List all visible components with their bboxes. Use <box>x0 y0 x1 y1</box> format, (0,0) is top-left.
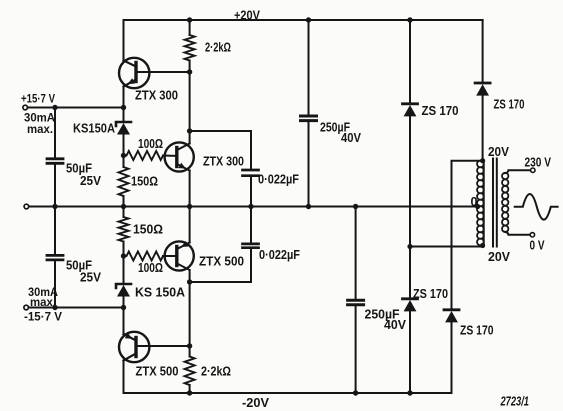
svg-text:+15·7 V: +15·7 V <box>21 92 56 106</box>
wire: left column collector of Q1 <box>123 20 125 61</box>
svg-text:20V: 20V <box>488 250 511 264</box>
zener diode ZS 170 (upper left) <box>403 104 418 117</box>
resistor 2.2k (top) <box>185 35 195 61</box>
wire: primary top tap to x451 column <box>452 161 483 308</box>
capacitor 50uF 25V (top) <box>47 159 63 164</box>
wire: 250uF top to rail <box>308 122 310 206</box>
wire: Q3 emitter to rail <box>189 207 191 243</box>
svg-text:40V: 40V <box>341 131 362 145</box>
wire: Q2 collector lead <box>189 131 191 144</box>
svg-text:20V: 20V <box>488 145 510 159</box>
wire: branch to 0.022uF (top) <box>190 131 251 169</box>
transformer T1 core <box>493 159 497 247</box>
svg-text:0·022µF: 0·022µF <box>259 248 300 262</box>
wire: 0.022uF top to rail <box>250 178 252 207</box>
svg-text:2·2kΩ: 2·2kΩ <box>201 365 231 379</box>
diode KS150A (top) <box>116 108 131 156</box>
resistor 2.2k (bottom) <box>185 357 195 386</box>
node: 230V terminal <box>531 168 535 172</box>
wire: 150ohm bottom leads <box>123 207 125 218</box>
node: 0V terminal <box>530 233 534 237</box>
zener diode ZS 170 (lower right) <box>444 310 459 323</box>
wire: 250uF bottom branch <box>355 207 357 299</box>
svg-text:230 V: 230 V <box>525 156 552 170</box>
transistor Q3 ZTX 500 (middle) <box>165 241 194 271</box>
capacitor 250uF 40V (top) <box>301 116 317 121</box>
sine wave output symbol <box>515 194 558 220</box>
wire: 0.022uF bottom to rail <box>250 207 252 243</box>
transformer T1 secondary winding <box>502 173 508 232</box>
wire: -15.7V node to Q4 emitter <box>123 308 125 335</box>
svg-text:+20V: +20V <box>234 9 261 23</box>
resistor 100ohm (top) <box>127 151 164 160</box>
wire: 0V middle rail <box>29 206 478 208</box>
svg-text:-15·7 V: -15·7 V <box>24 310 63 324</box>
svg-text:ZS 170: ZS 170 <box>422 104 459 118</box>
zener diode ZS 170 (upper right) <box>475 83 490 96</box>
resistor 150ohm (top) <box>119 167 129 196</box>
wire: 100ohm to Q2 base <box>163 155 175 157</box>
svg-text:0·022µF: 0·022µF <box>258 173 299 187</box>
svg-text:150Ω: 150Ω <box>131 175 158 189</box>
wire: x410 column to bottom zener <box>409 247 411 297</box>
svg-text:2·2kΩ: 2·2kΩ <box>205 41 231 55</box>
svg-text:ZS 170: ZS 170 <box>494 98 525 112</box>
wire: 250uF top branch <box>308 20 310 115</box>
svg-text:0: 0 <box>471 195 478 209</box>
svg-text:ZTX 500: ZTX 500 <box>199 255 244 269</box>
svg-text:KS 150A: KS 150A <box>135 286 185 300</box>
node: 0V left terminal <box>24 204 29 209</box>
wire: primary bottom tap to x410 column <box>410 246 483 248</box>
zener diode ZS 170 (lower left) <box>403 299 418 312</box>
svg-text:ZS 170: ZS 170 <box>413 287 448 301</box>
svg-text:100Ω: 100Ω <box>138 137 163 151</box>
wire: x410 column through middle rail to bottom tap node <box>409 116 411 247</box>
wire: secondary top lead to 230V terminal <box>505 170 530 173</box>
transistor Q1 ZTX 300 (top) <box>119 58 190 88</box>
wire: Q2 emitter to rail <box>189 171 191 207</box>
wire: +20V top rail <box>124 19 483 21</box>
svg-text:2723/1: 2723/1 <box>500 395 529 409</box>
capacitor 50uF 25V (bottom) <box>47 255 63 260</box>
svg-text:max.: max. <box>27 122 53 136</box>
transistor Q2 ZTX 300 (middle) <box>165 142 194 171</box>
wire: 50uF top branch <box>54 108 56 158</box>
svg-text:ZTX 500: ZTX 500 <box>136 365 179 379</box>
node: +15.7V input terminal <box>23 105 28 110</box>
capacitor 0.022uF (top) <box>243 170 259 176</box>
wire: secondary bottom lead to 0V terminal <box>505 232 530 235</box>
node: -15.7V input terminal <box>24 305 29 310</box>
wire: ZS170 column x410 upper <box>409 20 411 102</box>
diode KS150A (bottom) <box>116 256 131 308</box>
wire: 150ohm top leads <box>123 156 125 168</box>
resistor 150ohm (bottom) <box>119 217 129 242</box>
capacitor 250uF 40V (bottom) <box>348 300 364 305</box>
svg-text:150Ω: 150Ω <box>133 223 163 237</box>
wire: +15.7V input to left column <box>28 107 124 109</box>
wire: 2.2k top leads <box>189 20 191 35</box>
wire: top rail corner to upper right zener <box>482 20 484 81</box>
wire: upper right zener to primary top tap <box>482 96 484 161</box>
svg-text:max.: max. <box>30 295 56 309</box>
svg-text:KS150A: KS150A <box>73 122 115 136</box>
wire: lower zener to -20V rail <box>409 311 411 393</box>
wire: lower right zener to -20V rail <box>451 322 453 393</box>
transformer T1 primary winding <box>477 161 484 246</box>
wire: 100ohm to Q3 base <box>163 255 175 257</box>
svg-text:-20V: -20V <box>242 396 270 410</box>
svg-text:25V: 25V <box>80 271 102 285</box>
capacitor 0.022uF (bottom) <box>243 244 259 248</box>
wire: -15.7V input to left column <box>29 307 124 309</box>
resistor 100ohm (bottom) <box>127 252 164 261</box>
svg-text:100Ω: 100Ω <box>138 261 163 275</box>
svg-text:25V: 25V <box>80 174 102 188</box>
wire: -20V bottom rail <box>124 392 452 394</box>
wire: Q3 collector down to branch node <box>189 270 191 346</box>
wire: 50uF bottom branch <box>54 207 56 255</box>
svg-text:40V: 40V <box>384 318 407 332</box>
transistor Q4 ZTX 500 (bottom) <box>119 332 190 362</box>
wire: 2.2k bottom leads <box>189 346 191 357</box>
wire: Q4 collector to -20V rail <box>123 361 125 394</box>
wire: Q1 base node down to Q2 collector node <box>189 72 191 131</box>
wire: Q1 emitter to +15.7V node <box>123 87 125 108</box>
wire: 250uF bottom to rail <box>355 306 357 393</box>
svg-text:ZS 170: ZS 170 <box>460 324 494 338</box>
svg-text:ZTX 300: ZTX 300 <box>135 89 178 103</box>
svg-text:0 V: 0 V <box>530 239 545 253</box>
wire: branch to 0.022uF (bottom) <box>190 249 251 282</box>
svg-text:ZTX 300: ZTX 300 <box>203 155 244 169</box>
